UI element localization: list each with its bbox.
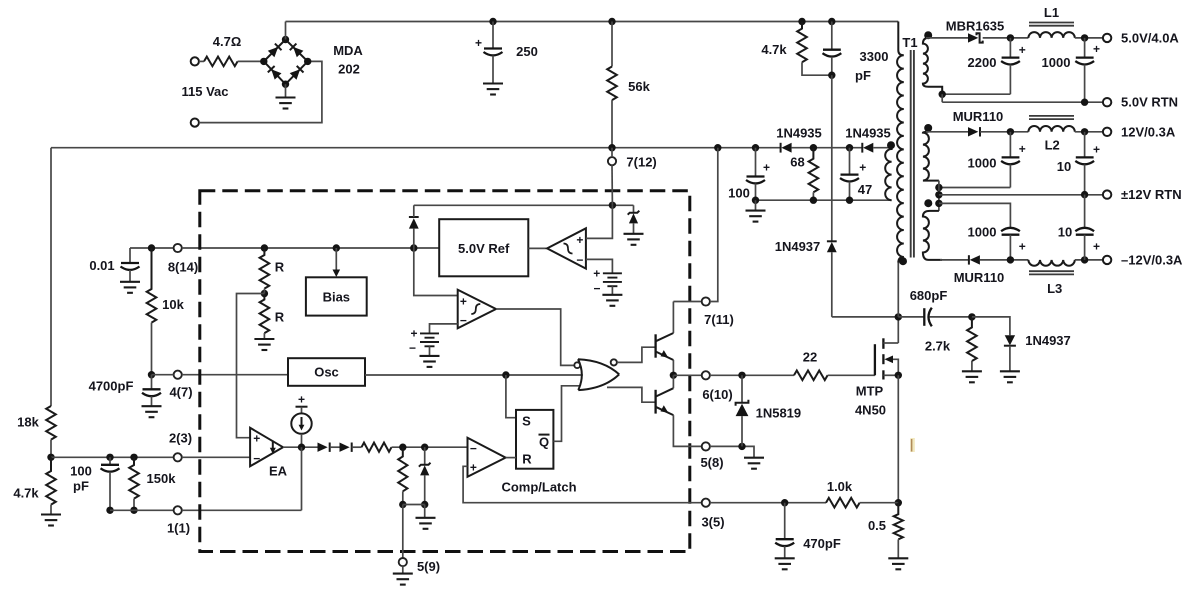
wire source down to current sense	[897, 375, 899, 502]
svg-text:250: 250	[516, 44, 538, 59]
svg-text:1000: 1000	[1042, 55, 1071, 70]
block Osc	[288, 358, 365, 386]
terminal 5.0V RTN	[1103, 98, 1111, 106]
wire diode to aux winding	[873, 147, 891, 149]
node EA output	[298, 444, 305, 451]
op-amp EA error amplifier	[250, 428, 283, 467]
capacitor 680pF	[898, 308, 972, 327]
wire L2 to output	[1075, 131, 1103, 133]
wire NOR to upper transistor base	[617, 347, 655, 362]
svg-text:4700pF: 4700pF	[89, 379, 134, 394]
node 1000 top (12V)	[1007, 128, 1014, 135]
resistor 2.7k	[967, 317, 977, 361]
node current sense	[895, 499, 902, 506]
resistor internal divider horizontal	[362, 443, 392, 452]
svg-text:8(14): 8(14)	[168, 260, 198, 275]
svg-text:Q: Q	[539, 435, 549, 450]
svg-text:10k: 10k	[162, 297, 184, 312]
wire 2.7k to ground	[971, 361, 973, 371]
node comp divider bottom	[399, 501, 406, 508]
svg-text:+: +	[1019, 240, 1026, 254]
transformer secondary winding 1 (5V)	[923, 38, 942, 94]
node aux return 47	[846, 197, 853, 204]
svg-text:1N5819: 1N5819	[756, 406, 802, 421]
ground below 470pF	[775, 558, 795, 569]
svg-text:+: +	[576, 233, 583, 247]
svg-text:L1: L1	[1044, 5, 1059, 20]
pin circle 5(8)	[702, 442, 710, 450]
diode 1N4937 snubber	[827, 241, 837, 317]
resistor 4.7k snubber	[797, 22, 807, 63]
svg-text:7(12): 7(12)	[626, 155, 656, 170]
terminal input top (115 Vac line 1)	[191, 57, 199, 65]
op-amp UVLO comparator (left-pointing)	[547, 228, 586, 268]
ground below battery	[602, 295, 622, 306]
svg-text:5(9): 5(9)	[417, 559, 440, 574]
wire drain up to primary	[897, 263, 899, 317]
wire secondary3 bottom to MUR110	[940, 259, 969, 261]
wire 56k to Vcc rail	[611, 100, 613, 148]
svg-text:22: 22	[803, 350, 817, 365]
svg-text:5.0V Ref: 5.0V Ref	[458, 241, 510, 256]
wire return down to RTN line	[941, 94, 943, 102]
inductor L3 core	[1029, 271, 1074, 274]
wire 4.7k bottom elbow	[802, 62, 832, 75]
bridge node bottom	[282, 81, 289, 88]
svg-text:10: 10	[1058, 225, 1072, 240]
block Bias	[306, 277, 367, 315]
svg-text:150k: 150k	[147, 471, 177, 486]
transformer secondary winding 2 (12V)	[923, 132, 939, 181]
diode MBR1635	[968, 33, 983, 42]
wire pin 7(11) to Vcc rail	[710, 148, 718, 302]
resistor 4.7ohm	[204, 57, 238, 67]
capacitor 0.01	[121, 248, 140, 282]
inductor L1	[1028, 32, 1074, 38]
node 2.7k top	[968, 313, 975, 320]
node drain	[895, 313, 902, 320]
svg-text:1N4937: 1N4937	[1025, 333, 1071, 348]
wire secondary1 to MBR1635	[926, 37, 968, 39]
node MOSFET source	[895, 372, 902, 379]
wire R2 to ground	[263, 333, 265, 339]
node R divider mid	[261, 290, 268, 297]
wire 1(1) to EA output	[182, 509, 302, 511]
node internal top rail at pin7 column	[609, 202, 616, 209]
svg-text:−: −	[593, 282, 600, 296]
svg-text:MUR110: MUR110	[953, 109, 1004, 124]
wire 8(14) to 5V ref rail	[182, 247, 439, 249]
wire output node to pin 6(10)	[673, 374, 701, 376]
resistor 4.7k lower left	[46, 457, 56, 504]
battery reference UVLO	[603, 273, 622, 286]
node 2200 top	[1007, 34, 1014, 41]
ground below 1N4937 right	[1000, 371, 1020, 382]
node 10 bottom (-12V)	[1081, 256, 1088, 263]
svg-text:2200: 2200	[968, 55, 997, 70]
node center tap RTN	[935, 191, 942, 198]
wire NOR to lower transistor base	[607, 387, 655, 402]
wire pin 3(5) to RC filter	[710, 502, 826, 504]
svg-text:4(7): 4(7)	[169, 385, 192, 400]
wire battery2 to ground	[429, 346, 431, 356]
wire 150k to 1(1) line	[133, 499, 135, 511]
svg-text:R: R	[275, 260, 285, 275]
node 100pF top	[106, 454, 113, 461]
wire joining bottoms	[403, 504, 425, 506]
wire to pin 5(9)	[402, 505, 404, 559]
node 56k top	[608, 18, 615, 25]
wire 680pF to 1N4937 right	[972, 317, 1010, 335]
transformer T1 primary winding	[897, 22, 904, 257]
node 100pF bottom	[106, 507, 113, 514]
bridge diode bottom-right	[290, 66, 304, 80]
wire divider resistor bottom	[402, 491, 404, 504]
wire Q lower emitter to pin 5(8)	[673, 415, 701, 446]
battery reference UVLO2	[420, 333, 439, 346]
ground below zener	[416, 505, 436, 529]
op-amp UVLO2 comparator (right-pointing)	[458, 290, 496, 329]
terminal 5.0V/4.0A	[1103, 34, 1111, 42]
wire comp output to latch R	[506, 457, 516, 459]
svg-text:+: +	[859, 161, 866, 175]
wire 2(3) to EA inverting input	[182, 456, 250, 458]
node 10 bottom RTN	[1081, 191, 1088, 198]
node 150k top	[130, 454, 137, 461]
ground below battery2	[420, 356, 440, 367]
node 1000 bottom (-12V)	[1007, 256, 1014, 263]
terminal +-12V RTN	[1103, 190, 1111, 198]
latch box S R Qbar	[516, 410, 553, 469]
ground at 5(8)	[744, 458, 764, 469]
wire D1 to D2	[330, 446, 340, 448]
wire UVLO + input	[586, 205, 613, 238]
bridge diode top-right	[290, 44, 304, 58]
diode 1N4935 right	[862, 143, 873, 153]
svg-text:–12V/0.3A: –12V/0.3A	[1121, 252, 1183, 267]
svg-text:S: S	[522, 414, 531, 429]
svg-text:−: −	[460, 314, 467, 328]
svg-text:±12V RTN: ±12V RTN	[1121, 187, 1182, 202]
wire aux return line	[756, 199, 892, 201]
svg-text:R: R	[275, 310, 285, 325]
capacitor 1000 (-12V)	[1001, 228, 1020, 260]
pin circle 5(9)	[399, 558, 407, 566]
bridge rectifier MDA202 diamond	[264, 40, 308, 85]
svg-text:R: R	[522, 452, 532, 467]
node zener bottom	[421, 501, 428, 508]
svg-text:+: +	[593, 267, 600, 281]
ground below bridge	[276, 98, 296, 109]
svg-text:6(10): 6(10)	[702, 387, 732, 402]
node 150k bottom	[130, 507, 137, 514]
svg-text:+: +	[298, 393, 305, 407]
svg-text:68: 68	[790, 155, 804, 170]
phase dot secondary 1	[924, 31, 932, 39]
resistor 0.5 current sense	[894, 503, 903, 540]
svg-text:4.7Ω: 4.7Ω	[213, 34, 242, 49]
svg-text:680pF: 680pF	[910, 288, 948, 303]
svg-text:Comp/Latch: Comp/Latch	[501, 480, 576, 495]
node zener2 top	[421, 444, 428, 451]
resistor 150k	[129, 457, 139, 498]
transistor Q lower (totem pole)	[656, 388, 674, 415]
wire Q upper collector to pin 7(11)	[672, 302, 674, 334]
svg-text:1000: 1000	[968, 156, 997, 171]
IC UC3842 dashed boundary box	[200, 191, 690, 552]
svg-text:+: +	[1019, 43, 1026, 57]
capacitor 1000 (5V)	[1075, 38, 1094, 102]
wire bridge bottom to ground	[285, 84, 287, 97]
node 10 top (12V)	[1081, 128, 1088, 135]
svg-text:10: 10	[1057, 159, 1071, 174]
diode 1N5819 schottky clamp	[736, 375, 749, 446]
wire node to pin 2(3)	[51, 456, 174, 458]
ground below 0.5	[888, 558, 908, 569]
svg-text:−: −	[409, 341, 416, 355]
ground below pin 5(9)	[393, 566, 413, 584]
capacitor 10 (12V)	[1075, 132, 1094, 195]
ground below internal zener	[624, 234, 644, 245]
resistor 18k	[46, 406, 56, 440]
wire EA output	[283, 446, 318, 448]
hysteresis glyph UVLO	[564, 244, 573, 254]
pin circle 7(11)	[702, 297, 710, 305]
inductor L2 core	[1029, 116, 1074, 119]
svg-text:−: −	[576, 253, 583, 267]
node aux return 100uF	[752, 197, 759, 204]
svg-text:+: +	[410, 327, 417, 341]
node driver output	[670, 372, 677, 379]
capacitor 3300pF	[823, 22, 842, 76]
svg-text:2.7k: 2.7k	[925, 339, 951, 354]
svg-text:1N4935: 1N4935	[845, 126, 891, 141]
wire pin 1(1) line	[110, 509, 174, 511]
svg-text:L2: L2	[1045, 137, 1060, 152]
wire L3 to output	[1075, 259, 1103, 261]
svg-text:1N4935: 1N4935	[776, 126, 822, 141]
diode D2 after EA	[340, 443, 352, 452]
diode D1 after EA	[318, 443, 330, 452]
wire resistor to bridge	[238, 60, 264, 62]
wire 4.7k to ground	[50, 505, 52, 515]
wire MUR110 to L2	[980, 131, 1028, 133]
capacitor 1000 (12V)	[1001, 132, 1020, 188]
svg-text:+: +	[460, 294, 467, 308]
ground below R divider	[254, 339, 274, 350]
svg-text:−: −	[470, 441, 477, 455]
ground below aux return	[746, 200, 766, 221]
ground below 4700pF	[142, 406, 162, 417]
zener internal comp clamp	[419, 447, 431, 504]
wire Vcc rail left drop	[50, 148, 52, 406]
node divider2 top	[399, 444, 406, 451]
svg-text:0.01: 0.01	[89, 258, 114, 273]
svg-text:2(3): 2(3)	[169, 431, 192, 446]
phase dot aux winding	[887, 141, 895, 149]
wire input to resistor	[199, 60, 204, 62]
wire Vcc rail to pin 7(12) into IC	[611, 148, 613, 157]
resistor internal divider vertical	[398, 447, 407, 491]
wire pin 6(10) to gate resistor	[710, 374, 794, 376]
NOR input bubble	[574, 362, 580, 368]
node internal rail / diode anode	[410, 244, 417, 251]
capacitor 2200	[1001, 38, 1020, 94]
transistor Q upper (totem pole)	[656, 333, 674, 360]
wire UVLO2 - input to battery	[430, 324, 458, 334]
pin circle 4(7)	[174, 371, 182, 379]
capacitor 10 (-12V)	[1075, 195, 1094, 260]
ground below 250	[483, 84, 503, 95]
ground below 0.01	[120, 282, 140, 293]
wire D2 to divider resistor	[352, 446, 362, 448]
node 250uF top	[489, 18, 496, 25]
wire 5.0V RTN line	[942, 101, 1103, 103]
svg-text:4.7k: 4.7k	[13, 486, 39, 501]
transistor MTP4N50 MOSFET	[875, 317, 898, 380]
resistor 56k	[607, 67, 617, 101]
svg-text:L3: L3	[1047, 281, 1062, 296]
svg-text:18k: 18k	[17, 415, 39, 430]
terminal 12V/0.3A	[1103, 128, 1111, 136]
resistor 22 gate	[794, 371, 828, 381]
transformer secondary winding 3 (-12V)	[923, 211, 942, 260]
wire UVLO - input to battery	[586, 259, 613, 273]
bridge diode top-left	[268, 44, 282, 58]
pin circle 2(3)	[174, 453, 182, 461]
wire 68 to bottom	[812, 192, 814, 200]
pin circle 7(12)	[608, 157, 616, 165]
wire top DC rail	[286, 21, 899, 23]
wire and arrow into Bias	[333, 248, 341, 277]
node 1N5819 cathode	[738, 372, 745, 379]
svg-text:7(11): 7(11)	[704, 312, 734, 327]
capacitor 100uF	[746, 148, 765, 201]
pin circle 6(10)	[702, 371, 710, 379]
zener internal at rail end	[628, 205, 640, 234]
svg-text:T1: T1	[902, 35, 917, 50]
svg-text:1(1): 1(1)	[167, 521, 190, 536]
node 100uF top	[752, 144, 759, 151]
wire battery to ground	[611, 286, 613, 295]
svg-text:56k: 56k	[628, 79, 650, 94]
resistor R lower	[260, 294, 270, 334]
hysteresis glyph UVLO2	[471, 304, 480, 314]
node snubber junction	[828, 72, 835, 79]
svg-text:+: +	[1093, 240, 1100, 254]
node 56k bottom	[608, 144, 615, 151]
current source circle	[291, 393, 311, 448]
svg-text:+: +	[763, 161, 770, 175]
svg-text:+: +	[253, 431, 260, 445]
wire 10k to 4(7) node	[151, 323, 153, 375]
wire rail to 56k	[611, 22, 613, 67]
node bias feed	[333, 244, 340, 251]
svg-text:Bias: Bias	[323, 290, 350, 305]
svg-text:pF: pF	[855, 68, 871, 83]
arrow inside EA	[270, 441, 276, 454]
node center tap bottom	[935, 200, 942, 207]
node divider left	[47, 454, 54, 461]
svg-text:470pF: 470pF	[803, 536, 841, 551]
wire Q lower collector to output node	[672, 375, 674, 388]
diode MUR110 (-12V)	[969, 255, 980, 264]
svg-text:202: 202	[338, 62, 360, 77]
capacitor 470pF	[775, 503, 794, 559]
diode 1N4937 gate clamp	[1004, 335, 1016, 371]
wire input bottom to bridge right	[199, 61, 322, 122]
svg-text:4N50: 4N50	[855, 403, 886, 418]
svg-text:EA: EA	[269, 464, 288, 479]
pin circle 1(1)	[174, 506, 182, 514]
NOR output bubble	[611, 359, 617, 365]
svg-text:115 Vac: 115 Vac	[182, 84, 229, 99]
terminal -12V/0.3A	[1103, 256, 1111, 264]
resistor R upper	[260, 248, 270, 289]
svg-text:MTP: MTP	[856, 384, 884, 399]
node 1N5819 anode	[738, 443, 745, 450]
op-amp Comp/Latch comparator	[468, 438, 506, 477]
wire 5.0V Ref to UVLO comparator	[528, 247, 547, 249]
svg-text:pF: pF	[73, 479, 89, 494]
svg-text:3(5): 3(5)	[701, 515, 724, 530]
svg-text:0.5: 0.5	[868, 518, 886, 533]
inductor L3	[1028, 260, 1074, 266]
svg-text:100: 100	[70, 464, 92, 479]
resistor 68	[809, 148, 819, 193]
bridge node right	[304, 58, 311, 65]
svg-text:−: −	[253, 451, 260, 465]
wire 1.0k to source node	[860, 502, 899, 504]
wire 0.5 to ground	[897, 539, 899, 558]
pin circle 3(5)	[702, 499, 710, 507]
svg-text:+: +	[475, 36, 482, 50]
block 5.0V Ref	[439, 219, 528, 276]
wire latch Qbar to NOR input	[553, 386, 579, 442]
svg-text:12V/0.3A: 12V/0.3A	[1121, 124, 1176, 139]
svg-text:+: +	[470, 461, 477, 475]
capacitor 250	[484, 22, 503, 84]
phase dot primary	[899, 257, 907, 265]
wire snubber junction down (crosses Vcc rail)	[831, 75, 833, 241]
wire Osc output to NOR middle input	[365, 374, 583, 376]
wire +-12V RTN line	[939, 194, 1103, 196]
node Osc to latch S	[502, 371, 509, 378]
svg-text:47: 47	[858, 182, 872, 197]
phase dot secondary 2	[924, 124, 932, 132]
diode MUR110 (12V)	[968, 127, 980, 136]
bridge node top	[282, 36, 289, 43]
wire center tap vertical	[938, 181, 940, 211]
node 1000 top (5V)	[1081, 34, 1088, 41]
wire R1 to node	[263, 289, 265, 294]
node 47 top	[846, 144, 853, 151]
wire rail node down to UVLO2 + input	[414, 248, 458, 296]
svg-text:MBR1635: MBR1635	[946, 19, 1005, 34]
node 10k top	[148, 244, 155, 251]
wire Q upper emitter to output node	[672, 360, 674, 375]
ground below 2.7k	[962, 371, 982, 382]
wire 2200 bottom return	[942, 93, 1010, 95]
wire L1 to output	[1075, 37, 1103, 39]
capacitor 4700pF	[142, 375, 161, 407]
wire internal top rail	[414, 204, 634, 206]
wire 1000 bottom to center tap	[939, 187, 1011, 189]
svg-text:1.0k: 1.0k	[827, 479, 853, 494]
node Vc supply branch	[714, 144, 721, 151]
svg-text:MDA: MDA	[333, 43, 363, 58]
bridge diode bottom-left	[268, 66, 282, 80]
